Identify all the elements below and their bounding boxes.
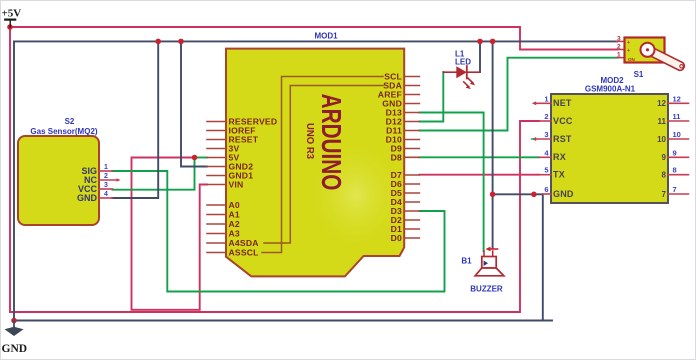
svg-text:4: 4 [104, 191, 108, 198]
arduino right pin D0 stub [404, 237, 419, 239]
GSM pin RST no-connect arrow [532, 137, 536, 141]
svg-text:RST: RST [553, 134, 572, 144]
switch S1 knob and lever [641, 43, 685, 71]
switch S1 body [625, 38, 665, 63]
svg-text:8: 8 [662, 171, 667, 180]
buzzer B1 horn [475, 268, 504, 276]
wire 5V pin to junction (green) [195, 157, 208, 159]
svg-text:NET: NET [553, 98, 572, 108]
svg-text:D0: D0 [391, 233, 402, 243]
svg-text:GND: GND [77, 193, 98, 203]
wire LED cathode riser to bus [479, 41, 481, 72]
arduino right pin SCL stub [404, 76, 419, 78]
wire D13 to buzzer terminal 1 (green) [419, 113, 483, 252]
wire 5V-VIN loop (red) [132, 158, 208, 310]
svg-text:11: 11 [658, 117, 667, 126]
svg-text:TX: TX [553, 170, 565, 180]
GSM right pin 7 stub [668, 193, 689, 195]
arduino right pin D8 stub [404, 156, 419, 158]
svg-text:ARDUINO: ARDUINO [315, 94, 346, 191]
svg-text:2: 2 [544, 112, 548, 121]
junction GSM GND / riser [490, 192, 496, 198]
svg-text:3: 3 [544, 130, 548, 139]
arduino internal A5SCL-SCL link [262, 77, 383, 253]
GSM pin 1 NET stub [535, 102, 552, 104]
svg-text:+: + [627, 40, 630, 46]
wire GND riser bus to buzzer terminal 2 [492, 41, 494, 248]
junction GND riser / bus [490, 39, 496, 45]
buzzer B1 terminals [483, 251, 485, 257]
wire D7 to GSM TX (red) [419, 174, 539, 176]
gas sensor S2 body [18, 136, 99, 225]
arduino left pin 3V stub [207, 148, 226, 150]
arduino right pin D11 stub [404, 130, 419, 132]
arduino left pin GND2 stub [207, 166, 226, 168]
arduino right pin D10 stub [404, 139, 419, 141]
svg-text:Gas Sensor(MQ2): Gas Sensor(MQ2) [30, 127, 97, 136]
GSM right pin 11 stub [668, 120, 689, 122]
arduino right pin D6 stub [404, 183, 419, 185]
buzzer B1 polarity mark [490, 248, 498, 250]
wire gas sensor SIG to D3 (green) [113, 171, 445, 292]
wire D12 to LED anode (green) [419, 72, 443, 122]
svg-text:A0: A0 [229, 200, 240, 210]
arduino right pin D12 stub [404, 121, 419, 123]
switch S1 pin 2 stub [617, 49, 625, 51]
wire gas sensor GND riser to bus [113, 41, 159, 198]
svg-text:MOD1: MOD1 [314, 32, 338, 41]
gas sensor pin 4 GND stub [99, 197, 113, 199]
svg-text:3: 3 [617, 35, 621, 42]
svg-text:D8: D8 [391, 152, 402, 162]
GSM pin 6 GND stub [543, 193, 551, 195]
svg-text:5: 5 [544, 166, 548, 175]
svg-text:A1: A1 [229, 210, 240, 220]
svg-text:RX: RX [553, 152, 566, 162]
svg-text:ASSCL: ASSCL [229, 248, 259, 258]
wire GND top bus [14, 40, 617, 42]
arduino right pin AREF stub [404, 94, 419, 96]
buzzer B1 body [482, 257, 496, 269]
arduino right pin D1 stub [404, 228, 419, 230]
svg-text:12: 12 [673, 94, 681, 103]
svg-text:7: 7 [673, 185, 677, 194]
node +5V stem [7, 24, 13, 30]
junction GND rail / ground symbol [11, 318, 17, 324]
GSM pin 4 RX stub [539, 156, 551, 158]
arduino left pin RESET stub [207, 139, 226, 141]
GSM right pin 12 stub [668, 102, 689, 104]
GSM right pin 10 stub [668, 138, 689, 140]
arduino right pin D2 stub [404, 219, 419, 221]
arduino right pin D7 stub [404, 174, 419, 176]
svg-text:1: 1 [617, 52, 621, 59]
GSM pin 3 RST stub [535, 138, 552, 140]
arduino left pin VIN stub [207, 184, 226, 186]
arduino UNO R3 text [304, 123, 316, 159]
svg-text:1: 1 [104, 164, 108, 171]
svg-text:GSM900A-N1: GSM900A-N1 [585, 85, 636, 94]
svg-text:6: 6 [544, 185, 548, 194]
arduino ARDUINO text [315, 94, 346, 191]
arduino right pin D9 stub [404, 148, 419, 150]
arduino left pin 5V stub [207, 157, 226, 159]
switch S1 pin 1 stub [617, 57, 625, 59]
svg-text:B1: B1 [461, 257, 472, 266]
junction GND2 riser / bus [178, 39, 184, 45]
svg-text:8: 8 [673, 166, 677, 175]
LED emission arrows [464, 78, 476, 89]
svg-text:VIN: VIN [229, 180, 244, 190]
arduino left pin A1 stub [207, 214, 226, 216]
svg-text:2: 2 [617, 44, 621, 51]
arduino left pin A2 stub [207, 223, 226, 225]
arduino left pin RESERVED stub [207, 121, 226, 123]
svg-text:9: 9 [673, 148, 677, 157]
junction GSM GND wire [531, 192, 537, 198]
svg-text:S1: S1 [634, 70, 644, 79]
svg-text:+5V: +5V [2, 8, 22, 20]
junction 5V net [192, 155, 198, 161]
svg-text:GND: GND [553, 189, 574, 199]
svg-text:A2: A2 [229, 219, 240, 229]
wire D11 to S1 pin1 (green) [419, 58, 617, 131]
svg-text:10: 10 [657, 135, 666, 144]
LED L1 symbol [443, 66, 480, 78]
svg-text:3: 3 [104, 182, 108, 189]
arduino left pin ASSCL stub [207, 252, 226, 254]
wire +5V left drop and bottom rail to GSM VCC riser [10, 27, 539, 312]
gas sensor pin 1 SIG stub [99, 170, 113, 172]
svg-text:A3: A3 [229, 229, 240, 239]
wire D8 to GSM RX (green) [419, 156, 539, 158]
arduino right pin D5 stub [404, 192, 419, 194]
wire junction to gas sensor VCC (green) [113, 158, 195, 190]
GSM right pin 9 stub [668, 156, 689, 158]
svg-text:GND: GND [2, 343, 28, 355]
GSM module MOD2 body [551, 94, 668, 203]
ground symbol [13, 321, 15, 332]
svg-text:BUZZER: BUZZER [470, 285, 503, 294]
wire GND left drop and bottom rail [14, 41, 552, 320]
switch S1 pin 3 stub [617, 40, 625, 42]
svg-text:11: 11 [673, 112, 681, 121]
arduino right pin D13 stub [404, 112, 419, 114]
svg-text:2: 2 [104, 173, 108, 180]
arduino right pin SDA stub [404, 85, 419, 87]
svg-text:9: 9 [662, 153, 667, 162]
svg-text:1: 1 [544, 94, 548, 103]
GSM pin NET no-connect arrow [532, 101, 536, 105]
wire GSM GND to riser and bottom rail [493, 194, 543, 320]
svg-text:S2: S2 [65, 117, 75, 126]
svg-text:7: 7 [662, 190, 667, 199]
arduino right pin GND stub [404, 103, 419, 105]
arduino left pin A4SDA stub [207, 242, 226, 244]
gas sensor NC no-connect arrow [117, 178, 121, 182]
wire bus to arduino GND2 [181, 41, 207, 166]
power +5V symbol [5, 19, 15, 21]
arduino left pin IOREF stub [207, 130, 226, 132]
arduino right pin D3 stub [404, 210, 419, 212]
GSM right pin 8 stub [668, 174, 689, 176]
svg-text:UNO R3: UNO R3 [304, 123, 316, 159]
arduino MOD1 body [226, 49, 404, 277]
junction gas GND / bus [155, 39, 161, 45]
arduino internal A4SDA-SDA link [264, 86, 383, 244]
svg-text:A4SDA: A4SDA [229, 238, 259, 248]
svg-text:12: 12 [657, 99, 666, 108]
svg-text:ON: ON [628, 57, 635, 62]
gas sensor pin 3 VCC stub [99, 188, 113, 190]
gas sensor pin 2 NC stub [99, 179, 118, 181]
arduino left pin A3 stub [207, 233, 226, 235]
svg-text:VCC: VCC [553, 116, 573, 126]
svg-text:LED: LED [455, 58, 471, 67]
wire +5V top bus to S1 pin2 [10, 27, 617, 50]
GSM pin 2 VCC stub [539, 120, 551, 122]
GSM pin 5 TX stub [539, 174, 551, 176]
arduino right pin D4 stub [404, 201, 419, 203]
svg-text:+: + [627, 48, 630, 54]
svg-text:10: 10 [673, 130, 681, 139]
arduino left pin A0 stub [207, 204, 226, 206]
junction LED cathode / bus [477, 39, 483, 45]
arduino left pin GND1 stub [207, 175, 226, 177]
